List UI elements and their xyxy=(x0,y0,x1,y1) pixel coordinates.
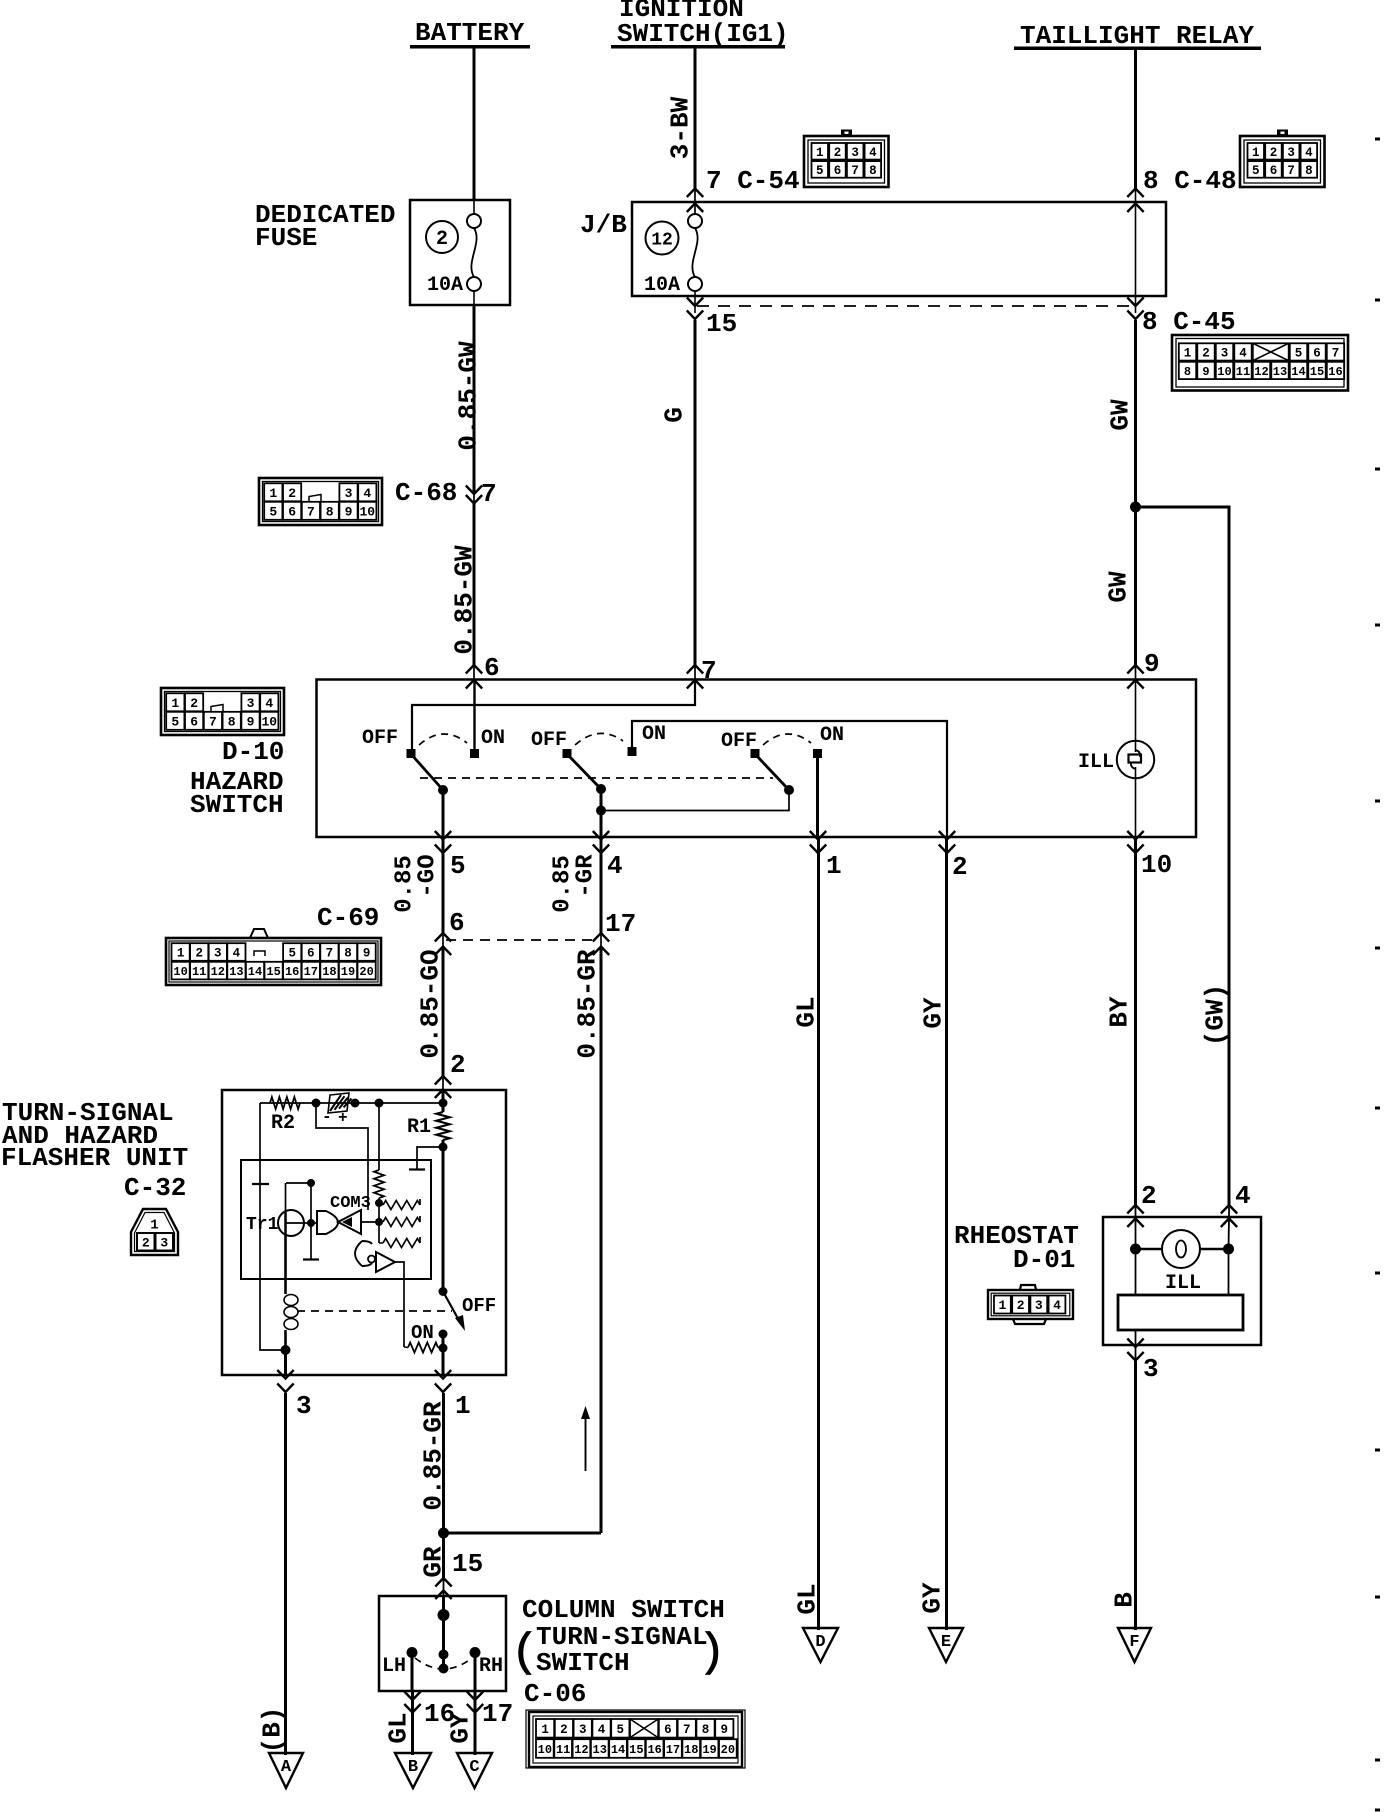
svg-text:5: 5 xyxy=(617,1723,625,1737)
svg-text:C-69: C-69 xyxy=(317,903,379,933)
svg-text:2: 2 xyxy=(436,228,448,251)
svg-text:5: 5 xyxy=(269,504,277,519)
svg-text:2: 2 xyxy=(288,486,296,501)
svg-text:R1: R1 xyxy=(407,1116,431,1139)
svg-text:13: 13 xyxy=(229,965,243,979)
svg-text:15: 15 xyxy=(706,309,737,339)
svg-text:2: 2 xyxy=(952,852,968,882)
svg-text:OFF: OFF xyxy=(531,729,567,752)
svg-text:SWITCH: SWITCH xyxy=(536,1648,630,1678)
svg-text:3: 3 xyxy=(296,1391,312,1421)
svg-text:14: 14 xyxy=(248,965,262,979)
svg-text:GL: GL xyxy=(383,1712,413,1743)
svg-text:R2: R2 xyxy=(271,1112,295,1135)
svg-text:17: 17 xyxy=(482,1699,513,1729)
svg-text:C-06: C-06 xyxy=(524,1679,586,1709)
svg-text:2: 2 xyxy=(1202,346,1210,360)
svg-text:8: 8 xyxy=(1305,164,1313,178)
svg-text:9: 9 xyxy=(345,504,353,519)
svg-text:4: 4 xyxy=(363,486,371,501)
svg-text:8: 8 xyxy=(702,1723,710,1737)
svg-text:3: 3 xyxy=(345,486,353,501)
svg-text:2: 2 xyxy=(142,1235,150,1250)
svg-text:9: 9 xyxy=(721,1723,729,1737)
svg-text:9: 9 xyxy=(247,714,255,729)
svg-text:A: A xyxy=(281,1758,292,1777)
svg-text:LH: LH xyxy=(382,1655,406,1678)
svg-text:GL: GL xyxy=(792,1583,822,1614)
svg-text:7: 7 xyxy=(683,1723,691,1737)
svg-text:GY: GY xyxy=(918,997,948,1029)
svg-text:-GO: -GO xyxy=(415,854,442,897)
svg-text:6: 6 xyxy=(449,908,465,938)
svg-text:4: 4 xyxy=(607,851,623,881)
svg-text:10: 10 xyxy=(1217,365,1231,379)
svg-text:GW: GW xyxy=(1103,571,1133,603)
svg-text:7: 7 xyxy=(307,504,315,519)
svg-text:11: 11 xyxy=(1236,365,1250,379)
svg-text:0.85-GW: 0.85-GW xyxy=(449,545,479,655)
svg-text:1: 1 xyxy=(1184,346,1192,360)
svg-text:(B): (B) xyxy=(257,1707,287,1754)
svg-text:(: ( xyxy=(511,1627,539,1679)
svg-text:7 C-54: 7 C-54 xyxy=(706,166,800,196)
svg-text:4: 4 xyxy=(1053,1298,1061,1313)
svg-text:8: 8 xyxy=(228,714,236,729)
svg-text:13: 13 xyxy=(1273,365,1287,379)
svg-text:8 C-48: 8 C-48 xyxy=(1143,166,1237,196)
svg-text:13: 13 xyxy=(593,1743,607,1757)
svg-text:15: 15 xyxy=(629,1743,643,1757)
svg-text:FUSE: FUSE xyxy=(255,223,317,253)
svg-text:3: 3 xyxy=(1221,346,1229,360)
svg-text:8 C-45: 8 C-45 xyxy=(1142,307,1236,337)
svg-text:SWITCH: SWITCH xyxy=(190,790,284,820)
svg-text:16: 16 xyxy=(647,1743,661,1757)
svg-text:4: 4 xyxy=(1235,1181,1251,1211)
svg-text:5: 5 xyxy=(288,947,296,961)
svg-text:3: 3 xyxy=(160,1235,168,1250)
svg-text:3: 3 xyxy=(851,146,859,160)
svg-text:GY: GY xyxy=(917,1582,947,1614)
svg-text:D: D xyxy=(815,1633,825,1652)
svg-text:14: 14 xyxy=(1291,365,1305,379)
svg-text:15: 15 xyxy=(266,965,280,979)
svg-text:OFF: OFF xyxy=(721,730,757,753)
svg-text:3: 3 xyxy=(1143,1354,1159,1384)
svg-text:FLASHER UNIT: FLASHER UNIT xyxy=(1,1143,188,1173)
svg-text:ON: ON xyxy=(411,1322,434,1344)
svg-text:SWITCH(IG1): SWITCH(IG1) xyxy=(617,19,789,49)
svg-text:15: 15 xyxy=(1310,365,1324,379)
svg-text:D-10: D-10 xyxy=(222,737,284,767)
svg-text:2: 2 xyxy=(190,696,198,711)
svg-text:16: 16 xyxy=(285,965,299,979)
svg-text:1: 1 xyxy=(1252,146,1260,160)
svg-text:4: 4 xyxy=(598,1723,606,1737)
svg-text:D-01: D-01 xyxy=(1013,1245,1075,1275)
svg-text:6: 6 xyxy=(288,504,296,519)
svg-text:3: 3 xyxy=(1035,1298,1043,1313)
svg-text:20: 20 xyxy=(359,965,373,979)
svg-text:G: G xyxy=(659,407,689,423)
svg-text:12: 12 xyxy=(574,1743,588,1757)
svg-text:1: 1 xyxy=(171,696,179,711)
svg-text:6: 6 xyxy=(484,653,500,683)
svg-text:GL: GL xyxy=(791,996,821,1027)
svg-text:6: 6 xyxy=(1270,164,1278,178)
svg-text:17: 17 xyxy=(666,1743,680,1757)
svg-text:8: 8 xyxy=(344,947,352,961)
svg-text:2: 2 xyxy=(1270,146,1278,160)
svg-text:9: 9 xyxy=(363,947,371,961)
svg-text:0.85-GW: 0.85-GW xyxy=(453,341,483,451)
svg-text:3: 3 xyxy=(579,1723,587,1737)
svg-text:COLUMN SWITCH: COLUMN SWITCH xyxy=(522,1595,725,1625)
svg-text:1: 1 xyxy=(998,1298,1006,1313)
svg-text:1: 1 xyxy=(826,851,842,881)
svg-text:C-32: C-32 xyxy=(124,1173,186,1203)
svg-text:ILL: ILL xyxy=(1165,1272,1201,1295)
svg-text:15: 15 xyxy=(452,1549,483,1579)
svg-text:2: 2 xyxy=(1017,1298,1025,1313)
svg-text:3: 3 xyxy=(214,947,222,961)
svg-text:11: 11 xyxy=(556,1743,570,1757)
svg-text:8: 8 xyxy=(869,164,877,178)
svg-text:10A: 10A xyxy=(427,274,463,297)
svg-text:12: 12 xyxy=(211,965,225,979)
svg-text:ON: ON xyxy=(481,727,505,750)
svg-text:E: E xyxy=(941,1633,951,1652)
svg-text:): ) xyxy=(698,1627,726,1679)
svg-text:9: 9 xyxy=(1144,649,1160,679)
svg-text:6: 6 xyxy=(1313,346,1321,360)
svg-text:7: 7 xyxy=(481,479,497,509)
svg-text:17: 17 xyxy=(304,965,318,979)
svg-text:17: 17 xyxy=(605,909,636,939)
svg-text:-: - xyxy=(322,1108,332,1126)
svg-text:-GR: -GR xyxy=(573,854,600,898)
svg-text:7: 7 xyxy=(326,947,334,961)
svg-text:2: 2 xyxy=(1141,1181,1157,1211)
svg-text:BATTERY: BATTERY xyxy=(415,18,525,48)
svg-text:5: 5 xyxy=(1295,346,1303,360)
svg-text:6: 6 xyxy=(834,164,842,178)
svg-text:1: 1 xyxy=(816,146,824,160)
svg-text:7: 7 xyxy=(851,164,859,178)
svg-text:18: 18 xyxy=(322,965,336,979)
svg-text:11: 11 xyxy=(192,965,206,979)
svg-text:4: 4 xyxy=(265,696,273,711)
svg-text:GR: GR xyxy=(418,1546,448,1578)
svg-text:5: 5 xyxy=(171,714,179,729)
svg-text:10: 10 xyxy=(261,714,277,729)
svg-text:3-BW: 3-BW xyxy=(665,96,695,159)
svg-text:GY: GY xyxy=(445,1712,475,1744)
svg-text:(GW): (GW) xyxy=(1200,984,1230,1046)
svg-text:OFF: OFF xyxy=(362,727,398,750)
svg-text:16: 16 xyxy=(1328,365,1342,379)
svg-text:+: + xyxy=(338,1109,348,1127)
svg-text:4: 4 xyxy=(869,146,877,160)
svg-text:2: 2 xyxy=(195,947,203,961)
svg-text:GW: GW xyxy=(1105,399,1135,431)
svg-text:10A: 10A xyxy=(644,274,680,297)
svg-text:COM3: COM3 xyxy=(330,1194,371,1213)
svg-text:20: 20 xyxy=(721,1743,735,1757)
svg-text:2: 2 xyxy=(560,1723,568,1737)
svg-text:4: 4 xyxy=(1239,346,1247,360)
svg-text:6: 6 xyxy=(190,714,198,729)
svg-text:6: 6 xyxy=(664,1723,672,1737)
svg-text:ILL: ILL xyxy=(1078,751,1114,774)
svg-text:10: 10 xyxy=(173,965,187,979)
svg-text:BY: BY xyxy=(1104,996,1134,1028)
svg-text:12: 12 xyxy=(651,230,673,250)
svg-text:7: 7 xyxy=(209,714,217,729)
svg-text:RH: RH xyxy=(479,1655,503,1678)
svg-text:C-68: C-68 xyxy=(395,478,457,508)
svg-text:6: 6 xyxy=(307,947,315,961)
svg-text:1: 1 xyxy=(455,1391,471,1421)
svg-text:1: 1 xyxy=(541,1723,549,1737)
svg-text:1: 1 xyxy=(150,1218,158,1234)
svg-text:10: 10 xyxy=(538,1743,552,1757)
svg-text:5: 5 xyxy=(816,164,824,178)
svg-text:B: B xyxy=(408,1758,418,1777)
svg-text:5: 5 xyxy=(450,851,466,881)
svg-text:ON: ON xyxy=(642,723,666,746)
svg-text:2: 2 xyxy=(834,146,842,160)
svg-text:4: 4 xyxy=(233,947,241,961)
svg-text:19: 19 xyxy=(341,965,355,979)
svg-text:7: 7 xyxy=(1332,346,1340,360)
svg-text:OFF: OFF xyxy=(462,1295,496,1317)
svg-text:0.85-GR: 0.85-GR xyxy=(572,949,602,1059)
svg-text:F: F xyxy=(1129,1633,1139,1652)
svg-text:18: 18 xyxy=(684,1743,698,1757)
svg-text:0.85-GO: 0.85-GO xyxy=(415,949,445,1058)
svg-text:19: 19 xyxy=(702,1743,716,1757)
svg-text:10: 10 xyxy=(1141,850,1172,880)
svg-text:J/B: J/B xyxy=(580,210,627,240)
svg-text:10: 10 xyxy=(359,504,375,519)
svg-text:7: 7 xyxy=(701,656,717,686)
svg-text:2: 2 xyxy=(450,1050,466,1080)
svg-text:7: 7 xyxy=(1287,164,1295,178)
svg-text:1: 1 xyxy=(269,486,277,501)
svg-text:8: 8 xyxy=(326,504,334,519)
svg-text:5: 5 xyxy=(1252,164,1260,178)
svg-text:3: 3 xyxy=(247,696,255,711)
svg-text:8: 8 xyxy=(1184,365,1191,379)
svg-text:9: 9 xyxy=(1202,365,1209,379)
svg-text:14: 14 xyxy=(611,1743,625,1757)
svg-text:4: 4 xyxy=(1305,146,1313,160)
svg-text:3: 3 xyxy=(1287,146,1295,160)
svg-text:0.85-GR: 0.85-GR xyxy=(418,1401,448,1511)
svg-text:Tr1: Tr1 xyxy=(246,1215,279,1235)
svg-text:12: 12 xyxy=(1254,365,1268,379)
svg-text:1: 1 xyxy=(177,947,185,961)
svg-text:C: C xyxy=(469,1758,479,1777)
svg-text:ON: ON xyxy=(820,724,844,747)
